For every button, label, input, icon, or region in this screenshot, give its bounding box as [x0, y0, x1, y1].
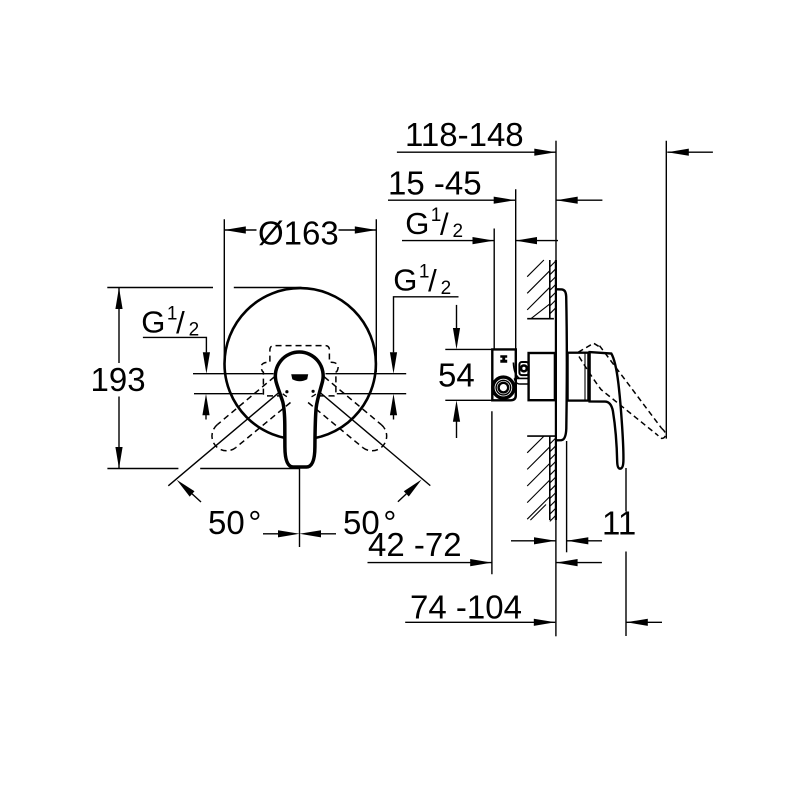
extension line lever tip (side)	[625, 468, 627, 636]
dashed lever rotated left	[212, 377, 291, 451]
G 1/2 front-right arrow up	[390, 394, 397, 420]
dimension 74-104 arrow left-pointing	[626, 619, 648, 626]
swivel union ring	[521, 366, 527, 372]
escutcheon circle	[225, 288, 376, 439]
svg-text:2: 2	[441, 278, 452, 299]
collar sleeve (side)	[568, 353, 589, 401]
angle ray right	[304, 379, 430, 486]
G 1/2 front-left arrow up	[202, 394, 209, 420]
svg-text:74 -104: 74 -104	[410, 589, 522, 626]
elbow small arc	[514, 378, 519, 384]
dimension 54 top line	[445, 348, 492, 350]
dimension O163 arrow right	[355, 226, 377, 233]
wall face extension lower	[555, 520, 557, 636]
dimension 193 arrow down	[115, 447, 122, 469]
dimension 118-148 arrow left-pointing	[667, 149, 689, 156]
dashed lever rotated right	[308, 377, 387, 451]
svg-text:42 -72: 42 -72	[368, 526, 462, 563]
wall lower block top line	[527, 435, 555, 437]
G 1/2 front-left arrow down	[203, 352, 210, 374]
wall hatch lower block	[527, 436, 550, 520]
svg-text:50°: 50°	[208, 504, 261, 541]
dimension 193 line	[118, 288, 120, 469]
wall face line	[555, 260, 557, 520]
dimension 42-72 arrow left-pointing	[556, 559, 578, 566]
valve body (side)	[529, 353, 555, 400]
dimension 118-148 line left	[397, 151, 556, 153]
dimension 193 bottom extension line	[107, 468, 299, 470]
dimension 193 top extension line	[107, 287, 301, 289]
dimension 54 bottom line	[445, 399, 492, 401]
G 1/2 label upper (side)	[405, 205, 463, 242]
G 1/2 upper arrow right-pointing	[473, 237, 495, 244]
elbow outline (side)	[513, 363, 519, 379]
handle knob and lever outline (front)	[275, 352, 323, 467]
G 1/2 upper arrow left-pointing	[516, 237, 538, 244]
swivel union square	[519, 362, 528, 375]
dimension 74-104 right tail	[626, 621, 662, 623]
handle slot mark	[291, 374, 308, 381]
svg-text:/: /	[176, 305, 185, 340]
dimension 42-72 arrow right-pointing	[470, 559, 492, 566]
bracket screw glyph	[500, 355, 507, 363]
svg-text:/: /	[428, 263, 437, 298]
svg-text:Ø163: Ø163	[258, 215, 339, 252]
dimension O163 right extension line	[375, 219, 377, 372]
wall tile hatch upper	[550, 261, 556, 314]
dimension 42-72 right tail	[556, 562, 602, 564]
G 1/2 label front-left	[141, 303, 199, 340]
dimension 74-104 arrow right-pointing	[534, 619, 556, 626]
dimension 15-45 right tail	[556, 199, 602, 201]
svg-text:2: 2	[453, 221, 464, 242]
dimension 15-45 arrow left-pointing	[556, 197, 578, 204]
G 1/2 upper dim line	[402, 240, 494, 242]
G 1/2 upper right tail	[516, 240, 559, 242]
union nut rings	[493, 377, 514, 398]
angle ray left	[168, 379, 295, 486]
supply line upper (front)	[193, 373, 406, 375]
supply line lower (front)	[194, 393, 406, 395]
collar inner line	[584, 354, 586, 401]
dimension 118-148 right tail	[667, 151, 713, 153]
svg-text:/: /	[440, 206, 449, 241]
angle arrow right at centerline	[300, 530, 337, 537]
dimension 11 line left	[511, 540, 556, 542]
lever handle (side)	[590, 352, 624, 469]
elbow lower line	[514, 378, 528, 384]
dimension 11 right tail	[567, 540, 602, 542]
extension line bracket-left (side)	[493, 229, 495, 350]
wall tile boundary line upper	[549, 260, 551, 319]
dimension 15-45 arrow right-pointing	[494, 197, 516, 204]
G 1/2 front-left underline leader	[143, 337, 207, 352]
dimension 15-45 line	[388, 199, 515, 201]
angle arrow left at centerline	[263, 530, 300, 537]
handle dashed pivot arc left	[278, 387, 290, 398]
angle arrow left upper	[177, 480, 201, 502]
center line vertical (front)	[299, 466, 301, 547]
dimension 54 arrow down	[453, 305, 460, 350]
svg-text:G: G	[141, 304, 165, 339]
dashed lever rotated (side)	[578, 343, 665, 438]
dimension 42-72 line	[368, 562, 492, 564]
G 1/2 label front-right	[393, 262, 451, 299]
wall upper block bottom line	[527, 318, 554, 320]
extension line wall face upper	[555, 141, 557, 262]
extension line bracket lower	[491, 411, 493, 574]
wall tile hatch lower	[550, 438, 556, 522]
extension line plate front	[566, 441, 568, 552]
dimension 118-148 arrow right-pointing	[534, 149, 556, 156]
handle dashed pivot arc right	[309, 387, 321, 397]
dimension 11 arrow left-pointing	[567, 537, 589, 544]
svg-text:G: G	[393, 263, 417, 298]
supply bracket (side)	[492, 349, 516, 400]
handle dot left	[285, 390, 288, 393]
svg-text:11: 11	[602, 505, 636, 542]
extension line bracket-right (side)	[515, 189, 517, 349]
dimension 74-104 line	[405, 621, 555, 623]
dimension 193 arrow up	[115, 288, 122, 310]
wall hatch upper block	[527, 260, 550, 319]
dashed rough-in box around handle	[261, 346, 338, 396]
escutcheon plate profile (side)	[557, 289, 567, 440]
dimension 54 arrow up	[453, 400, 460, 438]
svg-text:15 -45: 15 -45	[388, 165, 482, 202]
extension line dashed-lever tip	[665, 141, 667, 439]
dimension O163 arrow left	[224, 226, 246, 233]
G 1/2 front-right arrow down	[390, 352, 397, 374]
handle dot right	[312, 390, 315, 393]
dimension O163 line	[224, 229, 376, 231]
wall tile boundary line lower	[549, 436, 551, 520]
svg-text:193: 193	[91, 361, 146, 398]
svg-text:54: 54	[438, 357, 475, 394]
dimension O163 left extension line	[223, 219, 225, 366]
dimension 11 arrow right-pointing	[534, 537, 556, 544]
G 1/2 front-right underline leader	[394, 297, 459, 353]
angle arrow right upper	[398, 480, 422, 502]
svg-text:118-148: 118-148	[405, 116, 524, 153]
svg-text:G: G	[405, 206, 429, 241]
